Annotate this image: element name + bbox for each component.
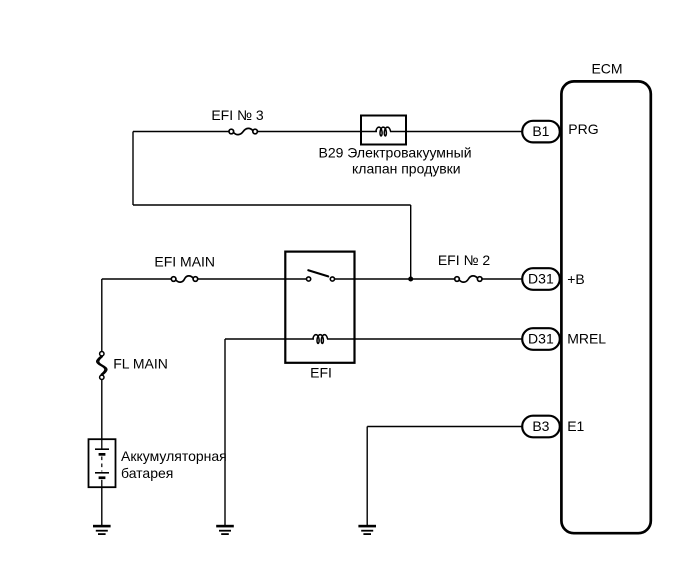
svg-text:Аккумуляторная: Аккумуляторная (121, 448, 227, 464)
svg-text:D31: D31 (528, 271, 554, 287)
svg-text:E1: E1 (567, 418, 584, 434)
svg-text:B3: B3 (532, 418, 549, 434)
svg-text:FL MAIN: FL MAIN (113, 356, 168, 372)
svg-text:батарея: батарея (121, 465, 173, 481)
svg-text:EFI MAIN: EFI MAIN (154, 254, 215, 270)
svg-text:B1: B1 (532, 123, 549, 139)
svg-text:MREL: MREL (567, 331, 606, 347)
svg-text:клапан продувки: клапан продувки (352, 161, 461, 177)
svg-text:D31: D31 (528, 331, 554, 347)
svg-text:PRG: PRG (568, 121, 598, 137)
svg-text:EFI: EFI (310, 365, 332, 381)
svg-text:+B: +B (567, 271, 585, 287)
svg-text:B29 Электровакуумный: B29 Электровакуумный (319, 145, 472, 161)
svg-text:EFI № 2: EFI № 2 (438, 252, 491, 268)
svg-text:EFI № 3: EFI № 3 (211, 107, 264, 123)
svg-text:ECM: ECM (591, 61, 622, 77)
